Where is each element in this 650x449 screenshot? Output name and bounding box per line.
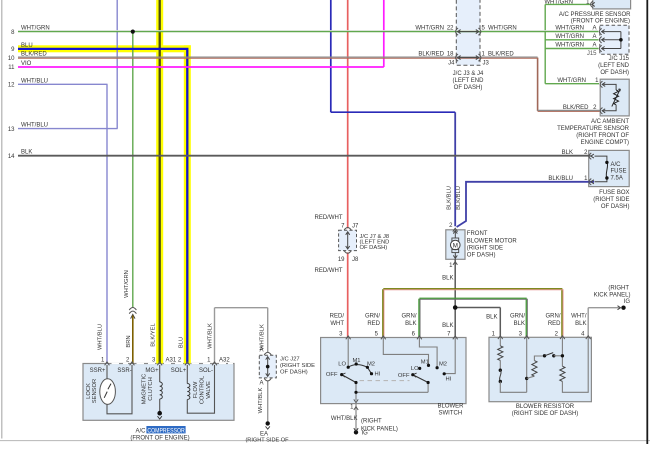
svg-text:HI: HI — [375, 372, 381, 378]
wire BLK/RED horizontal to ambient sensor pin 2 — [538, 109, 600, 111]
front blower motor box — [446, 230, 465, 259]
wire WHT/BLK from compressor SOL- up/over/down through J27 to ground EA — [214, 308, 216, 364]
svg-text:22: 22 — [447, 26, 454, 32]
wire 12 WHT/BLU horizontal — [18, 83, 108, 85]
svg-text:CLUTCH: CLUTCH — [148, 377, 154, 401]
wire GRN/RED vertical to switch pin 5 — [382, 289, 384, 337]
wire RED/WHT vertical J8 to blower switch pin 3 — [347, 252, 349, 337]
svg-text:OF DASH): OF DASH) — [280, 370, 308, 376]
svg-text:BLK: BLK — [486, 314, 497, 320]
svg-text:WHT/GRN: WHT/GRN — [555, 34, 584, 40]
svg-text:J15: J15 — [587, 51, 597, 57]
fuse box (right side of dash) — [589, 150, 630, 186]
J/C J15 internal bus — [603, 31, 621, 33]
svg-text:LO: LO — [338, 362, 346, 368]
wire 8 WHT/GRN horizontal — [18, 30, 599, 32]
wire WHT/GRN stubs at J/C J15 — [545, 3, 590, 5]
wire BLK/RED vertical segment (right) — [537, 58, 539, 111]
svg-text:RED/WHT: RED/WHT — [315, 215, 343, 221]
svg-text:(RIGHT: (RIGHT — [608, 285, 629, 291]
svg-text:A32: A32 — [219, 358, 230, 364]
svg-text:WHT/BLK: WHT/BLK — [208, 323, 214, 349]
svg-text:LOCK: LOCK — [86, 383, 92, 399]
svg-text:FUSE BOX: FUSE BOX — [599, 190, 629, 196]
svg-text:M2: M2 — [367, 361, 375, 367]
blower motor pin 2 arrow — [453, 228, 458, 231]
wire WHT/GRN to ambient sensor pin 1 — [545, 83, 599, 85]
svg-text:GRN/: GRN/ — [402, 314, 417, 320]
svg-text:A: A — [592, 26, 596, 32]
svg-text:A: A — [592, 34, 596, 40]
svg-text:A: A — [592, 43, 596, 49]
A/C ambient temperature sensor box — [600, 79, 629, 116]
svg-text:OF DASH): OF DASH) — [601, 204, 630, 210]
blower motor pin 1 arrow — [453, 262, 457, 265]
svg-text:WHT/BLU: WHT/BLU — [21, 123, 48, 129]
flow control valve coil L2 — [186, 365, 188, 384]
svg-text:ENGINE COMPT): ENGINE COMPT) — [581, 140, 629, 146]
svg-text:WHT/BLK: WHT/BLK — [259, 324, 265, 350]
lock sensor — [106, 365, 108, 379]
svg-text:GRN/: GRN/ — [365, 314, 380, 320]
svg-text:10: 10 — [8, 56, 15, 62]
svg-text:BLK: BLK — [575, 321, 586, 327]
blower resistor box — [489, 337, 591, 401]
dashes on compressor top edge — [112, 363, 120, 365]
svg-text:SSR-: SSR- — [117, 368, 131, 374]
svg-text:SENSOR: SENSOR — [92, 379, 98, 403]
A/C compressor title with highlighted selection — [146, 426, 185, 433]
svg-text:A/C PRESSURE SENSOR: A/C PRESSURE SENSOR — [559, 12, 631, 18]
wire GRN/BLK vertical to switch pin 6 — [418, 299, 420, 337]
svg-text:BLK: BLK — [21, 150, 32, 156]
svg-text:OFF: OFF — [398, 373, 410, 379]
svg-text:14: 14 — [8, 154, 15, 160]
front blower motor internal symbol M — [454, 232, 456, 239]
svg-text:GRN/: GRN/ — [546, 314, 561, 320]
svg-text:COMPRESSOR: COMPRESSOR — [147, 428, 185, 434]
svg-text:M: M — [453, 242, 458, 249]
wire GRN/BLK vertical to resistor pin 3 — [525, 299, 527, 338]
svg-text:VALVE: VALVE — [206, 381, 212, 399]
svg-text:M1: M1 — [352, 358, 360, 364]
ground IG dot below blower switch — [354, 430, 358, 434]
svg-text:M1: M1 — [421, 360, 429, 366]
svg-text:BRN: BRN — [126, 335, 132, 347]
svg-text:WHT: WHT — [330, 321, 344, 327]
svg-text:(LEFT END: (LEFT END — [598, 63, 630, 69]
wire GRN/RED vertical to resistor pin 2 — [561, 289, 563, 337]
svg-text:BLOWER: BLOWER — [437, 404, 464, 410]
svg-text:HI: HI — [446, 376, 452, 382]
svg-text:RED: RED — [367, 321, 380, 327]
wire WHT/BLK horizontal to ground IG (right) — [588, 307, 620, 309]
svg-text:BLK/BLU: BLK/BLU — [447, 186, 453, 210]
svg-text:WHT/GRN: WHT/GRN — [555, 43, 584, 49]
svg-text:BLK/BLU: BLK/BLU — [456, 186, 462, 210]
svg-text:J3: J3 — [483, 61, 490, 67]
wire BLK/BLU vertical to blower motor — [454, 112, 456, 226]
svg-text:(LEFT END: (LEFT END — [453, 78, 485, 84]
svg-text:BLK: BLK — [442, 275, 453, 281]
svg-text:BLOWER RESISTOR: BLOWER RESISTOR — [516, 404, 575, 410]
svg-text:BLK/BLU: BLK/BLU — [548, 176, 573, 182]
svg-text:18: 18 — [447, 52, 454, 58]
svg-text:(RIGHT SIDE: (RIGHT SIDE — [280, 363, 315, 369]
svg-text:BLK/RED: BLK/RED — [418, 52, 444, 58]
svg-text:MG+: MG+ — [145, 368, 159, 374]
magnetic clutch coil L1 — [159, 365, 161, 382]
svg-text:(RIGHT SIDE: (RIGHT SIDE — [467, 245, 503, 251]
svg-text:FLOW: FLOW — [193, 381, 199, 398]
wire VIO vertical from top — [383, 0, 385, 67]
svg-text:J7: J7 — [352, 223, 359, 229]
svg-text:SOL-: SOL- — [199, 368, 213, 374]
wire WHT/BLK vertical to resistor pin 4 — [587, 308, 589, 338]
blower resistor internal: pin2 resistor R3 and pin4 — [561, 338, 563, 367]
svg-text:WHT/BLK: WHT/BLK — [258, 387, 264, 413]
wire BLU vertical from top — [330, 0, 332, 112]
wire GRN/BLK horizontal — [419, 297, 526, 299]
wire 10 BLK/RED horizontal — [18, 56, 538, 58]
svg-text:BLU: BLU — [21, 43, 33, 49]
blower resistor internal: resistor R1 chain — [499, 338, 501, 346]
highlighted wire band: BLK/YEL vertical — [156, 0, 163, 364]
svg-text:(FRONT OF ENGINE): (FRONT OF ENGINE) — [130, 436, 189, 442]
wire BLK/BLU from fuse to blower motor — [457, 182, 594, 227]
svg-text:M2: M2 — [439, 361, 447, 367]
wire BLK horizontal to resistor pin 1 — [455, 307, 500, 309]
fuse A/C FUSE 7.5A internal — [595, 156, 607, 162]
svg-text:OF DASH): OF DASH) — [600, 70, 629, 76]
svg-text:7.5A: 7.5A — [611, 176, 623, 182]
wire BRN vertical to compressor SSR- — [132, 316, 134, 364]
junction connector J/C J27 box — [259, 355, 276, 378]
inline connector on WHT/GRN to BRN wire — [129, 308, 136, 311]
svg-text:KICK PANEL): KICK PANEL) — [594, 292, 631, 298]
J/C J27 internal arrow with junction — [267, 358, 269, 376]
svg-text:(FRONT OF ENGINE): (FRONT OF ENGINE) — [571, 19, 630, 25]
compressor pin arrows — [105, 362, 110, 365]
svg-text:GRN/: GRN/ — [510, 314, 525, 320]
svg-text:(RIGHT: (RIGHT — [361, 419, 382, 425]
svg-text:A31: A31 — [166, 358, 177, 364]
svg-text:BLU: BLU — [179, 337, 185, 348]
ambient temperature sensor internal thermistor R — [604, 84, 617, 90]
switch wiper left — [342, 375, 356, 383]
thermal switch in resistor — [543, 354, 546, 357]
svg-text:A/C AMBIENT: A/C AMBIENT — [591, 119, 629, 125]
wire GRN/RED horizontal — [383, 288, 562, 290]
clutch case ground dot — [157, 411, 162, 416]
A/C pressure sensor box U1 — [593, 0, 631, 9]
blower switch pin arrows — [346, 336, 351, 339]
svg-text:WHT/BLU: WHT/BLU — [98, 324, 104, 350]
svg-text:WHT/BLU: WHT/BLU — [21, 78, 48, 84]
wire BLU horizontal upper — [331, 111, 455, 113]
ground EA dot and arrow — [266, 421, 270, 425]
svg-text:(RIGHT FRONT OF: (RIGHT FRONT OF — [576, 133, 629, 139]
J/C J7 & J8 internal double arrow — [347, 233, 349, 248]
svg-text:BLK/YEL: BLK/YEL — [151, 322, 157, 346]
svg-text:J/C J27: J/C J27 — [280, 356, 300, 362]
svg-text:A/C: A/C — [611, 162, 622, 168]
svg-text:11: 11 — [8, 65, 15, 71]
svg-text:BLK: BLK — [442, 323, 453, 329]
svg-text:BLK/RED: BLK/RED — [21, 52, 47, 58]
svg-text:BLK: BLK — [562, 150, 573, 156]
junction connector J/C J3 & J4 box — [456, 0, 480, 65]
wire WHT/GRN vertical branch to compressor — [132, 31, 134, 307]
wire BLK vertical to blower resistor pin 1 — [499, 308, 501, 338]
svg-text:(RIGHT SIDE OF: (RIGHT SIDE OF — [245, 437, 289, 443]
svg-text:TEMPERATURE SENSOR: TEMPERATURE SENSOR — [557, 126, 630, 132]
junction node BLK near blower switch — [453, 305, 458, 310]
svg-text:OF DASH): OF DASH) — [467, 252, 496, 258]
svg-text:MAGNETIC: MAGNETIC — [142, 374, 148, 405]
svg-text:13: 13 — [8, 127, 15, 133]
svg-text:WHT/GRN: WHT/GRN — [557, 78, 586, 84]
svg-text:WHT/GRN: WHT/GRN — [21, 26, 50, 32]
svg-text:WHT/GRN: WHT/GRN — [415, 26, 444, 32]
svg-text:J4: J4 — [448, 61, 455, 67]
svg-text:WHT/: WHT/ — [571, 314, 587, 320]
wire 14 BLK horizontal to fuse box pin 2 — [18, 155, 591, 157]
blower switch internal wiring — [347, 338, 349, 367]
svg-text:SSR+: SSR+ — [90, 368, 106, 374]
svg-text:A: A — [259, 380, 263, 386]
svg-text:VIO: VIO — [21, 61, 32, 67]
svg-text:FUSE: FUSE — [611, 168, 627, 174]
svg-text:BLK: BLK — [514, 321, 525, 327]
svg-text:BLK: BLK — [405, 321, 416, 327]
ground IG right: arrow and dot — [618, 306, 621, 310]
junction node on wire 8 WHT/GRN — [131, 30, 135, 34]
wire 13 WHT/BLU horizontal — [18, 128, 118, 130]
svg-text:RED: RED — [548, 321, 561, 327]
svg-text:BLK/RED: BLK/RED — [488, 52, 514, 58]
highlighted wire band: BLU horizontal+vertical — [18, 45, 191, 52]
svg-text:LO: LO — [411, 366, 419, 372]
svg-text:SWITCH: SWITCH — [439, 411, 463, 417]
window right edge bar — [646, 0, 648, 444]
svg-text:19: 19 — [338, 257, 345, 263]
svg-text:SOL+: SOL+ — [171, 368, 187, 374]
svg-text:WHT/GRN: WHT/GRN — [555, 26, 584, 32]
blower resistor pin arrows — [498, 336, 503, 339]
svg-text:CONTROL: CONTROL — [200, 375, 206, 404]
switch wiper right — [413, 375, 428, 383]
wire WHT/GRN vertical segment (right) — [544, 4, 546, 83]
blower resistor internal: pin3 branch and resistor R2 — [526, 338, 528, 393]
wire WHT/BLU vertical from top (to wire 13) — [116, 0, 118, 129]
svg-text:WHT/GRN: WHT/GRN — [544, 0, 573, 5]
svg-text:12: 12 — [8, 83, 15, 89]
svg-text:BLK/RED: BLK/RED — [563, 105, 589, 111]
junction connector J/C J15 box — [600, 25, 629, 54]
svg-text:IG: IG — [624, 299, 631, 305]
wire WHT/BLU vertical (wire 12 to compressor SSR+) — [106, 84, 108, 363]
svg-text:FRONT: FRONT — [467, 231, 488, 237]
A/C compressor box — [83, 364, 234, 421]
wire BLU highlighted: horizontal then vertical to compressor SOL+ — [18, 49, 187, 364]
svg-text:OF DASH): OF DASH) — [360, 245, 388, 251]
svg-text:A/C: A/C — [136, 428, 147, 434]
svg-text:BLOWER MOTOR: BLOWER MOTOR — [467, 238, 518, 244]
blower switch box — [321, 338, 466, 404]
J/C J3 & J4 internal double arrows — [459, 31, 477, 33]
wire BLK/YEL vertical (highlighted) to compressor MG+ — [159, 0, 161, 364]
page left border — [1, 0, 3, 439]
svg-text:WHT/BLK: WHT/BLK — [331, 416, 358, 422]
svg-text:IG: IG — [362, 431, 369, 437]
svg-text:(RIGHT SIDE OF DASH): (RIGHT SIDE OF DASH) — [512, 411, 579, 417]
mechanical link dashed — [360, 380, 410, 382]
svg-text:WHT/GRN: WHT/GRN — [488, 26, 517, 32]
svg-text:RED/: RED/ — [330, 314, 345, 320]
switch contact arc left — [348, 365, 367, 368]
wire RED/WHT vertical from top to J/C J7 — [347, 0, 349, 228]
svg-text:J/C J3 & J4: J/C J3 & J4 — [453, 71, 484, 77]
switch pin 1 exit arrow — [354, 399, 358, 402]
svg-text:WHT/GRN: WHT/GRN — [124, 270, 130, 298]
svg-text:J/C J15: J/C J15 — [609, 56, 630, 62]
wire 11 VIO horizontal — [18, 66, 384, 68]
svg-text:RED/WHT: RED/WHT — [315, 268, 343, 274]
wire BLK from blower motor to junction and switch pin 7 — [454, 259, 456, 337]
svg-text:A: A — [259, 347, 263, 353]
svg-text:J8: J8 — [352, 257, 359, 263]
A/C pressure sensor pin 1 arrow — [592, 2, 595, 6]
junction connector J/C J7 & J8 box — [339, 230, 357, 250]
page bottom border — [0, 440, 650, 442]
wire WHT/BLK from switch pin 1 to ground IG — [355, 404, 357, 431]
svg-text:OF DASH): OF DASH) — [454, 85, 483, 91]
svg-text:OFF: OFF — [326, 372, 338, 378]
svg-text:(RIGHT SIDE: (RIGHT SIDE — [593, 197, 629, 203]
